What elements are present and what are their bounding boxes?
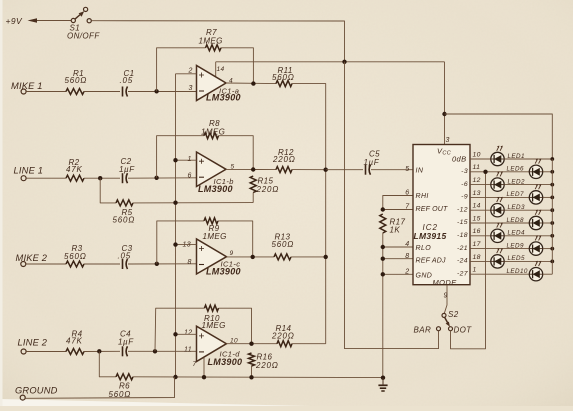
- IC1-c designator: [206, 260, 241, 277]
- wire R8 loop: [157, 136, 254, 178]
- svg-text:REF ADJ: REF ADJ: [416, 257, 446, 264]
- svg-text:.05: .05: [118, 252, 132, 261]
- R5 label: [113, 208, 136, 225]
- svg-text:560Ω: 560Ω: [65, 76, 88, 85]
- svg-text:GND: GND: [416, 273, 433, 280]
- svg-text:+9V: +9V: [6, 16, 23, 26]
- svg-text:1: 1: [188, 156, 192, 163]
- wire LED7 anode: [543, 196, 552, 198]
- node rail 14: [550, 208, 554, 212]
- wire r1-c1: [84, 91, 120, 93]
- LED LED3: [491, 197, 504, 217]
- wire out1-bus: [292, 84, 326, 344]
- wire noninverting bus: [175, 74, 177, 377]
- LINE1 terminal: [21, 176, 26, 181]
- svg-text:14: 14: [473, 203, 481, 210]
- node line1 r5 tap: [98, 176, 102, 180]
- R9 label: [203, 224, 227, 241]
- wire +9V rail: [92, 21, 345, 62]
- svg-text:LM3915: LM3915: [414, 231, 447, 241]
- IC1-d designator: [208, 349, 243, 366]
- node rail 11: [550, 170, 554, 174]
- node pin7 gnd: [202, 375, 206, 379]
- node rail 15: [550, 221, 554, 225]
- svg-text:DOT: DOT: [454, 326, 473, 335]
- node +9V junction: [342, 60, 346, 64]
- BAR label: [414, 326, 432, 335]
- op-amp IC1-d: [197, 326, 227, 361]
- IC2 designator: [414, 223, 447, 241]
- wire pin18 row: [470, 260, 491, 262]
- R17 label: [390, 218, 406, 235]
- pin 10 label: [473, 151, 481, 158]
- svg-text:0dB: 0dB: [452, 155, 467, 164]
- op-amp IC1-b: [197, 152, 227, 187]
- svg-text:9: 9: [444, 292, 448, 299]
- resistor R2: [66, 175, 84, 181]
- switch S2: [437, 313, 453, 330]
- wire Vcc drop: [444, 62, 446, 145]
- LED LED5: [491, 248, 504, 268]
- LED6 label: [507, 166, 524, 173]
- svg-text:17: 17: [473, 241, 481, 248]
- GROUND label: [15, 386, 58, 396]
- svg-text:9: 9: [230, 250, 234, 257]
- pin labels IC1-c: [183, 241, 234, 266]
- DOT label: [454, 326, 473, 335]
- S1 label: [67, 24, 100, 41]
- node bus pin12: [173, 332, 177, 336]
- svg-text:560Ω: 560Ω: [64, 252, 87, 261]
- RHI label: [405, 190, 429, 200]
- node rail 10: [550, 157, 554, 161]
- LED3 label: [508, 204, 525, 211]
- wire pin1 row: [470, 273, 529, 275]
- RLO label: [405, 241, 431, 252]
- svg-text:3: 3: [189, 85, 193, 92]
- LED1 label: [508, 153, 525, 160]
- R16 label: [255, 352, 279, 370]
- resistor R4: [66, 349, 84, 355]
- node rail 16: [550, 234, 554, 238]
- node ch3 input: [155, 262, 159, 266]
- svg-text:1µF: 1µF: [364, 158, 380, 167]
- IN label: [405, 166, 424, 174]
- wire LED3 anode: [505, 209, 553, 211]
- svg-text:15: 15: [473, 215, 481, 222]
- node pin8 tie: [381, 257, 385, 261]
- resistor R1: [66, 89, 84, 95]
- svg-text:1MEG: 1MEG: [201, 128, 225, 137]
- R2 label: [66, 158, 83, 174]
- node bus pin1: [173, 158, 177, 162]
- svg-text:.05: .05: [120, 76, 134, 85]
- node bus pin13: [173, 242, 177, 246]
- wire R9 loop: [157, 221, 253, 264]
- node main ground: [381, 376, 385, 380]
- wire r4-c4: [84, 350, 120, 352]
- pin 14 label: [0, 0, 1, 1]
- wire pin7ic2: [383, 209, 413, 211]
- svg-text:6: 6: [188, 173, 192, 180]
- svg-text:6: 6: [405, 190, 409, 197]
- node pin2 tie: [381, 272, 385, 276]
- R14 label: [271, 324, 295, 340]
- pin 14 label: [473, 203, 481, 210]
- wire pin10 row: [470, 158, 491, 160]
- svg-text:-6: -6: [461, 181, 468, 188]
- node out3: [251, 255, 255, 259]
- wire pin2: [176, 73, 197, 75]
- svg-text:RHI: RHI: [416, 193, 429, 200]
- svg-text:47K: 47K: [66, 337, 83, 346]
- MIKE1 label: [11, 81, 43, 91]
- MIKE1 terminal: [21, 89, 26, 94]
- svg-text:-21: -21: [457, 245, 468, 252]
- wire r13-bus: [291, 256, 326, 258]
- LED2 label: [508, 178, 525, 185]
- wire pin8: [383, 258, 413, 260]
- wire c3-pin8: [128, 263, 197, 265]
- wire LED anode feed: [445, 114, 553, 159]
- svg-text:GROUND: GROUND: [15, 386, 58, 396]
- LED LED9: [529, 235, 542, 255]
- wire pin16 row: [470, 235, 491, 237]
- svg-text:1MEG: 1MEG: [203, 232, 227, 241]
- svg-text:7: 7: [405, 203, 410, 210]
- wire bar-mode drop: [345, 62, 439, 349]
- svg-text:RLO: RLO: [416, 245, 432, 252]
- node r16 gnd: [249, 375, 253, 379]
- switch S1: [71, 7, 91, 23]
- pin labels IC1-b: [188, 156, 235, 179]
- svg-text:12: 12: [184, 329, 193, 336]
- level -3 label: [461, 168, 468, 175]
- svg-text:LINE 2: LINE 2: [18, 337, 48, 347]
- svg-text:1µF: 1µF: [118, 337, 134, 346]
- svg-text:3: 3: [446, 137, 450, 144]
- svg-text:-27: -27: [457, 270, 468, 277]
- pin 1 label: [473, 267, 477, 274]
- LED LED1: [491, 146, 504, 166]
- GND label: [404, 268, 432, 279]
- pin labels IC1-a: [188, 66, 234, 92]
- node bus gnd: [173, 375, 177, 379]
- C4 label: [118, 330, 134, 347]
- wire R10 loop: [155, 308, 252, 351]
- node Vcc branch: [442, 112, 446, 116]
- LED LED7: [529, 184, 542, 204]
- capacitor C3: [123, 259, 128, 269]
- C5 label: [364, 150, 381, 168]
- svg-text:MIKE 1: MIKE 1: [11, 81, 43, 91]
- resistor R10: [204, 305, 218, 311]
- R10 label: [202, 314, 226, 330]
- wire line2: [26, 351, 66, 353]
- svg-text:220Ω: 220Ω: [256, 185, 280, 194]
- pin 9 stub: [444, 285, 447, 314]
- svg-text:220Ω: 220Ω: [272, 155, 296, 164]
- wire mike2: [26, 263, 66, 265]
- svg-text:LINE 1: LINE 1: [14, 166, 44, 176]
- svg-text:-3: -3: [461, 168, 468, 175]
- svg-text:8: 8: [188, 259, 192, 266]
- wire LED9 anode: [543, 248, 552, 250]
- ground symbol: [378, 378, 387, 391]
- wire anode rail: [551, 159, 553, 274]
- REFOUT label: [405, 203, 448, 213]
- node line2 r6 tap: [97, 349, 101, 353]
- wire r12-bus: [292, 169, 326, 171]
- svg-text:16: 16: [473, 228, 481, 235]
- wire pin4: [383, 246, 413, 248]
- level -24 label: [457, 258, 468, 265]
- svg-text:IN: IN: [416, 167, 424, 174]
- wire c5-pin5: [371, 169, 413, 171]
- svg-text:220Ω: 220Ω: [271, 331, 295, 340]
- resistor R5: [116, 200, 133, 206]
- wire ground rail: [133, 376, 383, 379]
- svg-text:1µF: 1µF: [119, 165, 135, 174]
- wire ground input: [25, 377, 174, 398]
- node bus bias2: [173, 201, 177, 205]
- 0dB label: [452, 155, 467, 164]
- wire LED8 anode: [543, 222, 552, 224]
- capacitor C2: [123, 173, 128, 183]
- pin 9 label: [444, 292, 448, 299]
- pin 12 label: [473, 177, 481, 184]
- node pin4 tie: [381, 245, 385, 249]
- S2 label: [448, 310, 459, 319]
- LED9 label: [507, 242, 524, 249]
- wire mike1: [26, 91, 66, 93]
- REFADJ label: [405, 253, 446, 265]
- wire out1: [226, 82, 276, 85]
- R12 label: [272, 148, 296, 164]
- LED LED8: [529, 210, 542, 230]
- wire LED2 anode: [505, 184, 553, 186]
- LED LED10: [529, 261, 542, 281]
- MIKE2 label: [16, 253, 48, 263]
- resistor R15: [250, 176, 256, 193]
- svg-text:1: 1: [473, 267, 477, 274]
- pin labels IC1-d: [184, 329, 238, 368]
- svg-text:11: 11: [184, 346, 192, 353]
- wire c2-pin6: [128, 177, 197, 179]
- svg-text:LM3900: LM3900: [208, 357, 243, 367]
- IC1-b designator: [198, 177, 234, 194]
- wire c4-pin11: [128, 350, 197, 352]
- wire r14-bus: [292, 343, 326, 345]
- pin 18 label: [473, 254, 481, 261]
- svg-text:11: 11: [473, 164, 481, 171]
- svg-text:47K: 47K: [66, 165, 83, 174]
- node out4: [249, 342, 253, 346]
- +9V label: [6, 16, 23, 26]
- LED LED4: [491, 222, 504, 242]
- svg-text:ON/OFF: ON/OFF: [67, 31, 100, 40]
- level -27 label: [457, 270, 468, 277]
- wire pin12: [176, 333, 197, 335]
- resistor R17: [380, 214, 386, 233]
- wire out2: [226, 168, 276, 170]
- level -6 label: [461, 181, 468, 188]
- resistor R13: [274, 254, 291, 260]
- svg-text:7: 7: [193, 361, 198, 368]
- level -12 label: [457, 206, 468, 213]
- wire R6 branch: [99, 351, 116, 377]
- level -21 label: [457, 245, 468, 252]
- node out1: [251, 81, 255, 85]
- wire LED6 anode: [543, 171, 552, 173]
- svg-text:-24: -24: [457, 258, 468, 265]
- capacitor C4: [123, 346, 128, 356]
- GROUND terminal: [20, 395, 25, 400]
- LED10 label: [507, 268, 528, 275]
- resistor R12: [276, 167, 292, 173]
- wire r2-c2: [84, 177, 120, 179]
- wire pin14 row: [470, 209, 491, 211]
- resistor R6: [116, 374, 133, 380]
- level -15 label: [457, 219, 468, 226]
- wire pin13: [176, 244, 197, 246]
- wire pin2ic2: [383, 273, 413, 275]
- node mix2: [324, 168, 328, 172]
- wire V+ rail: [216, 61, 445, 63]
- LED8 label: [507, 217, 524, 224]
- svg-text:8: 8: [405, 253, 409, 260]
- wire LED10 anode: [543, 273, 552, 275]
- resistor R16: [249, 353, 255, 366]
- svg-text:-15: -15: [457, 219, 468, 226]
- wire LED4 anode: [505, 235, 553, 237]
- R7 label: [199, 28, 223, 45]
- wire LED5 anode: [505, 260, 553, 262]
- node out2: [251, 167, 255, 171]
- R4 label: [66, 330, 83, 346]
- wire pin14 stub: [215, 62, 217, 78]
- op-amp IC1-a: [197, 66, 227, 101]
- svg-text:REF OUT: REF OUT: [416, 206, 449, 213]
- wire r15 bottom: [252, 193, 254, 203]
- wire pin12 row: [470, 184, 491, 186]
- LINE2 label: [18, 337, 48, 347]
- pin 17 label: [473, 241, 481, 248]
- wire pin11 row: [470, 171, 529, 173]
- level -9 label: [461, 194, 468, 201]
- +9V arrow: [28, 18, 72, 23]
- resistor R7: [206, 45, 222, 51]
- pin 15 label: [473, 215, 481, 222]
- pin 11 label: [473, 164, 481, 171]
- Vcc label: [437, 147, 451, 157]
- IC2 box: [413, 145, 470, 285]
- svg-text:MODE: MODE: [433, 278, 458, 287]
- resistor R9: [204, 218, 218, 224]
- node ch2 input: [154, 176, 158, 180]
- svg-text:LED8: LED8: [507, 217, 524, 224]
- R3 label: [64, 244, 87, 261]
- R8 label: [201, 119, 225, 137]
- svg-text:560Ω: 560Ω: [113, 216, 136, 225]
- MODE label: [433, 278, 458, 287]
- svg-text:MIKE 2: MIKE 2: [16, 253, 48, 263]
- op-amp IC1-c: [197, 239, 227, 274]
- svg-text:LED9: LED9: [507, 242, 524, 249]
- C3 label: [118, 244, 133, 261]
- wire pin15 row: [470, 222, 529, 224]
- node pin7 tie: [381, 207, 385, 211]
- LED4 label: [508, 230, 525, 237]
- wire LED1 anode: [505, 158, 553, 160]
- wire r3-c3: [84, 263, 120, 265]
- svg-text:BAR: BAR: [414, 326, 432, 335]
- svg-text:560Ω: 560Ω: [272, 73, 295, 82]
- resistor R14: [277, 341, 292, 347]
- wire pin13 row: [470, 196, 529, 198]
- wire pin17 row: [470, 248, 529, 250]
- node ch4 input: [153, 349, 157, 353]
- svg-text:14: 14: [217, 66, 225, 73]
- R1 label: [65, 69, 88, 85]
- svg-text:LM3900: LM3900: [206, 93, 241, 103]
- svg-text:-9: -9: [461, 194, 468, 201]
- pin 3 label: [446, 137, 450, 144]
- svg-text:5: 5: [405, 166, 409, 173]
- MIKE2 terminal: [21, 262, 26, 267]
- R15 label: [256, 176, 280, 194]
- wire r17-lower: [382, 233, 384, 378]
- svg-text:LED6: LED6: [507, 166, 524, 173]
- pin 16 label: [473, 228, 481, 235]
- node rail 18: [550, 260, 554, 264]
- R13 label: [272, 233, 295, 250]
- svg-text:LED7: LED7: [507, 191, 524, 198]
- LED LED6: [529, 158, 542, 178]
- level -18 label: [457, 232, 468, 239]
- wire mix-c5: [326, 169, 363, 171]
- svg-text:1MEG: 1MEG: [202, 321, 226, 330]
- wire pin1: [176, 159, 197, 161]
- pin 13 label: [473, 190, 481, 197]
- wire line1: [26, 177, 66, 179]
- svg-text:LM3900: LM3900: [198, 184, 233, 194]
- wire out4: [226, 343, 277, 345]
- node rail 17: [550, 247, 554, 251]
- LINE1 label: [14, 166, 44, 176]
- svg-text:1MEG: 1MEG: [199, 36, 223, 45]
- wire r5 rail: [133, 202, 253, 204]
- svg-text:S2: S2: [448, 310, 459, 319]
- resistor R8: [204, 133, 219, 139]
- wire pin7 stub: [203, 358, 205, 378]
- resistor R3: [66, 261, 84, 267]
- capacitor C1: [123, 87, 128, 97]
- svg-text:13: 13: [473, 190, 481, 197]
- LED5 label: [508, 255, 525, 262]
- C1 label: [120, 69, 135, 85]
- svg-text:10: 10: [473, 151, 481, 158]
- wire pin6: [383, 196, 413, 210]
- capacitor C5: [366, 165, 371, 175]
- wire r16 bottom: [251, 366, 253, 377]
- svg-text:-18: -18: [457, 232, 468, 239]
- R11 label: [272, 66, 295, 82]
- LED7 label: [507, 191, 524, 198]
- svg-text:2: 2: [404, 268, 409, 275]
- wire R5 branch: [100, 178, 116, 203]
- svg-text:560Ω: 560Ω: [272, 240, 295, 249]
